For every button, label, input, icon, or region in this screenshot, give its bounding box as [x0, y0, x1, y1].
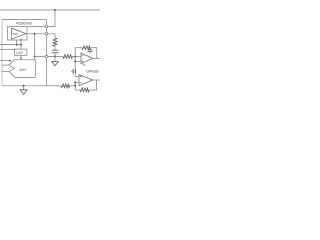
wire ADC aux input [0, 60, 10, 62]
wire R1 to C1 [54, 46, 56, 50]
capacitor C3 feedback [89, 48, 91, 50]
node tap-ADC junction [34, 56, 36, 58]
resistor R3 feedback [82, 46, 91, 50]
wire R3 to output [91, 48, 97, 59]
node IC ground junction [23, 85, 25, 87]
node noninv tap [74, 60, 76, 62]
wire R2 to op-amp [73, 56, 81, 58]
wire VDD input left [0, 44, 21, 46]
svg-text:AD56xxB: AD56xxB [16, 21, 32, 25]
wire feedback R5 left [75, 89, 80, 91]
node BUF output junction [34, 33, 36, 35]
pin REF circle [45, 25, 48, 28]
op-amp A1 triangle BUF [12, 28, 26, 39]
wire BUF node to ADC [34, 34, 36, 60]
resistor R1 divider top [53, 38, 57, 46]
wire feedback node vertical [74, 48, 76, 77]
svg-text:ADC: ADC [19, 68, 27, 72]
ground GND1 [52, 62, 59, 66]
pin ADC REF circle [45, 55, 48, 58]
wire to noninverting input [75, 60, 81, 62]
wire tap line [35, 56, 63, 58]
node ground wire junction [74, 85, 76, 87]
wire R5 to output [89, 80, 97, 90]
node inverting input junction [74, 56, 76, 58]
wire C1 to ground [54, 53, 56, 62]
wire LDO to ADC arrow [20, 55, 22, 58]
wire U2B node vertical [74, 83, 76, 91]
pin minus U2B [80, 82, 82, 84]
resistor R4 bottom [61, 84, 70, 88]
node junction on rail [54, 9, 56, 11]
capacitor C2 [72, 69, 74, 74]
wire ground stub [23, 86, 25, 90]
ADC U1a symbol [9, 60, 35, 78]
resistor R5 feedback [80, 88, 89, 92]
wire REF stub inside IC [27, 26, 46, 28]
wire BUF supply stub [16, 40, 18, 45]
node U2B inv junction [74, 82, 76, 84]
ground GND2 [20, 90, 27, 95]
wire ADC IN+ [2, 64, 9, 66]
pin plus U2A [82, 60, 84, 62]
svg-text:½: ½ [82, 62, 86, 67]
wire to LDO [20, 40, 22, 49]
wire ADC IN- [2, 71, 9, 73]
op-amp U2A [81, 53, 93, 64]
regulator LDO box [14, 49, 27, 55]
resistor R2 series [63, 55, 73, 59]
op-amp U2B [79, 75, 93, 86]
wire C2 to U2B input [75, 76, 79, 78]
svg-text:LDO: LDO [16, 51, 23, 55]
wire VREF to divider [48, 34, 55, 38]
pin VREF out circle [45, 33, 48, 36]
wire ground bus bottom [46, 85, 61, 87]
wire U2B output [93, 79, 100, 81]
pin plus U2B [80, 76, 82, 78]
svg-text:OPA2Bx: OPA2Bx [86, 69, 99, 73]
pin minus U2A [82, 54, 84, 56]
wire top supply rail [0, 9, 100, 11]
buffer box A1 [7, 27, 27, 40]
wire R4 to U2B node [70, 85, 76, 87]
node tap junction [54, 56, 56, 58]
capacitor C1 [52, 49, 58, 51]
node BUF supply junction [16, 44, 18, 46]
IC U1 outline [2, 20, 46, 86]
wire U2B inverting input [75, 82, 79, 84]
svg-text:BUF: BUF [13, 32, 19, 36]
wire LDO input left [0, 48, 14, 50]
wire U2A output [93, 57, 100, 59]
node aux input [9, 60, 11, 62]
node LDO feed junction [20, 44, 22, 46]
wire feedback R3 left [75, 47, 82, 49]
wire rail drop to REF pin [48, 10, 55, 27]
wire BUF output [26, 33, 47, 35]
